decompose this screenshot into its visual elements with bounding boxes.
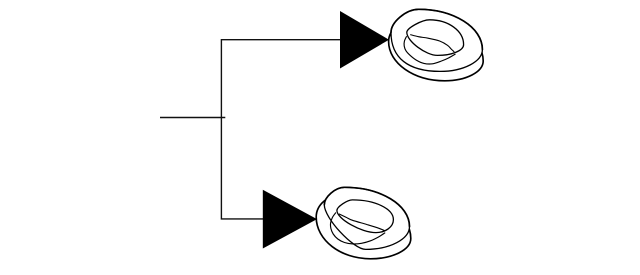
seal S1 (top): bore inner edge [410,35,454,52]
seal S2 (bottom): bore inner edge [339,214,385,231]
arrow to top seal [340,11,389,69]
arrow to bottom seal [263,190,317,249]
wire: vertical connector with top and bottom branch [221,40,341,219]
seal S1 (top): bottom rim [389,20,484,81]
seal S2 (bottom): hole rim [337,200,394,233]
seal S2 (bottom): outer silhouette (upper) [324,187,409,226]
seal S2 (bottom): bottom rim [316,195,411,259]
seal S1 (top): outer silhouette (upper) [391,9,482,49]
wire: left stub [160,117,225,119]
seal S2 (bottom): top face with seam edge [324,187,409,249]
seal S1 (top): lip step arc [404,36,455,64]
seal S1 (top): top face with seam edge [391,9,482,71]
seal S1 (top): hole rim [407,20,464,56]
seal S2 (bottom): lip step arc [330,213,385,244]
